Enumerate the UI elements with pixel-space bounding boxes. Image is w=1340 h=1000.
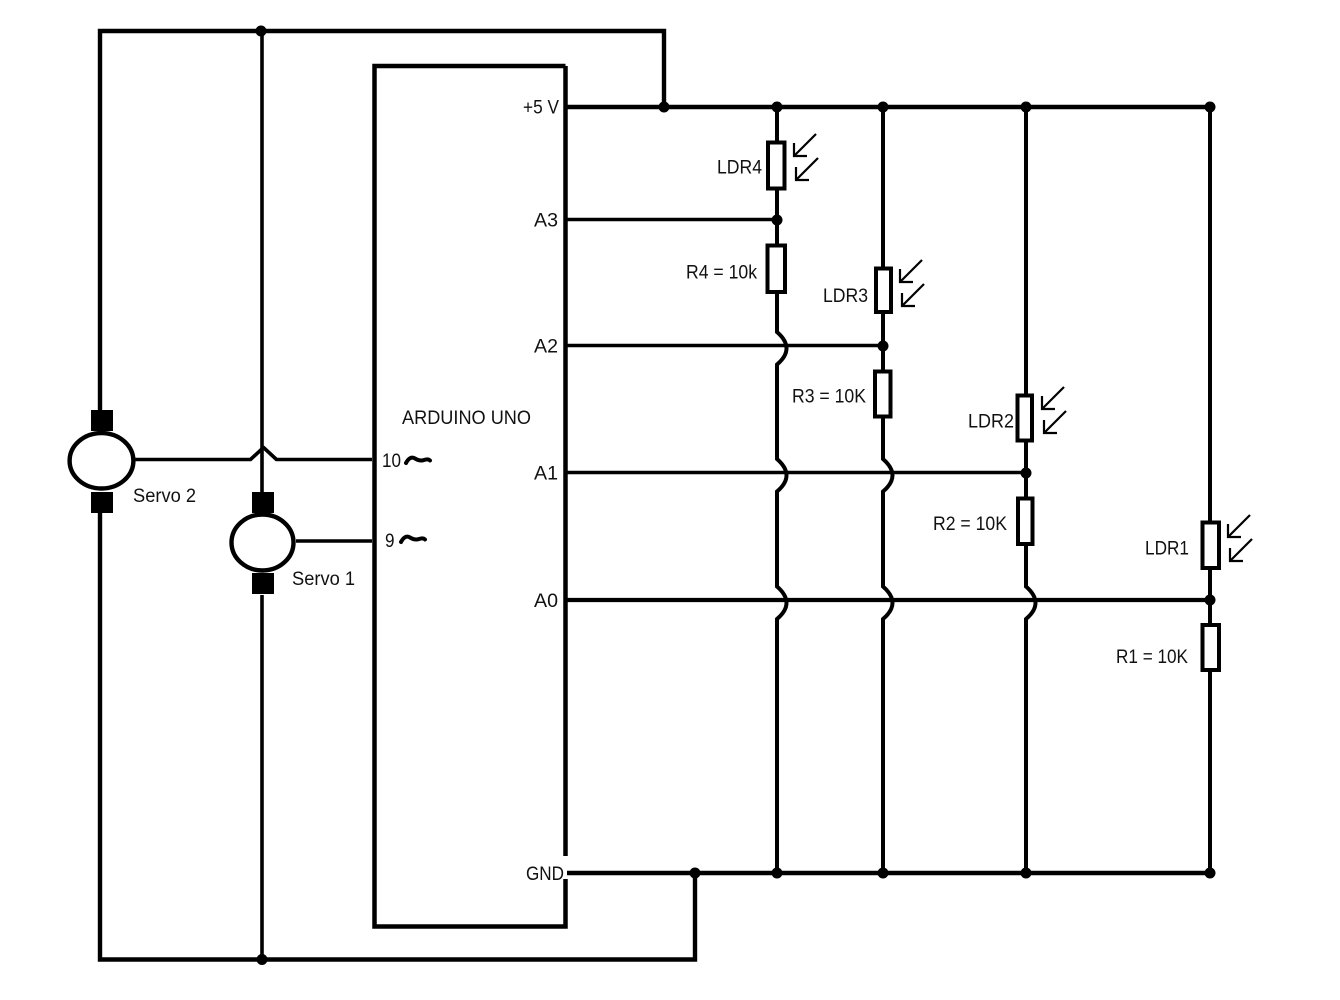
wire vertical feed to Servo 1 top — [260, 31, 264, 494]
wire A1 line — [567, 471, 1026, 475]
photoresistor LDR4 — [768, 143, 785, 189]
photoresistor LDR2 — [1018, 396, 1033, 441]
wire divider column 1 (x=1210) — [1208, 107, 1212, 873]
svg-text:Servo 1: Servo 1 — [292, 569, 355, 590]
resistor R1 — [1203, 625, 1220, 670]
photoresistor LDR3 — [876, 269, 891, 313]
node GND / divider 1 — [1205, 868, 1216, 879]
node GND / divider 4 — [772, 868, 783, 879]
LDR1 light arrow 2 — [1230, 539, 1252, 561]
svg-text:LDR4: LDR4 — [717, 158, 762, 179]
svg-text:R3 = 10K: R3 = 10K — [792, 387, 866, 408]
pin 10 PWM tilde — [406, 458, 430, 463]
svg-text:LDR2: LDR2 — [968, 412, 1014, 433]
wire Servo 1 bottom to ground run — [260, 595, 264, 960]
photoresistor LDR1 — [1203, 523, 1220, 569]
wire A2 line — [567, 344, 883, 348]
svg-text:A1: A1 — [534, 464, 558, 485]
svg-text:R4 = 10k: R4 = 10k — [686, 263, 757, 284]
node GND / servo return — [690, 868, 701, 879]
servo M2: Servo 1 motor symbol — [232, 492, 294, 594]
svg-text:LDR1: LDR1 — [1145, 539, 1189, 560]
LDR2 light arrow 1 — [1042, 387, 1064, 409]
svg-text:GND: GND — [526, 864, 564, 885]
svg-text:9: 9 — [385, 531, 395, 552]
wire +5V rail — [567, 105, 1210, 109]
wire divider column 2 (x=1026, hop over A0) — [1026, 107, 1036, 873]
svg-text:A2: A2 — [534, 337, 558, 358]
svg-text:A3: A3 — [534, 211, 558, 232]
wire A3 line — [567, 218, 777, 222]
wire Servo 1 signal to pin 9 — [296, 539, 372, 543]
svg-text:Servo 2: Servo 2 — [133, 486, 196, 507]
svg-text:ARDUINO UNO: ARDUINO UNO — [402, 407, 531, 429]
node junction on top wire (servo1 feed) — [256, 26, 267, 37]
ic U1 ARDUINO UNO box — [375, 66, 566, 927]
node A3 / divider 4 — [772, 215, 783, 226]
LDR4 light arrow 1 — [794, 134, 816, 156]
node GND / divider 2 — [1021, 868, 1032, 879]
wire Servo 2 bottom to ground run and bottom ground run — [100, 512, 695, 960]
resistor R4 — [768, 246, 786, 293]
wire top +5V distribution (left vertical, top run, right drop) — [100, 31, 664, 411]
pin 9 PWM tilde — [401, 537, 425, 542]
svg-text:R2 = 10K: R2 = 10K — [933, 514, 1007, 535]
node +5V / LDR1 — [1205, 102, 1216, 113]
wire divider column 4 (x=777, hops over A2, A1, A0) — [777, 107, 787, 873]
wire A0 line — [567, 598, 1210, 602]
node +5V / LDR2 — [1021, 102, 1032, 113]
svg-text:A0: A0 — [534, 591, 558, 612]
node A1 / divider 2 — [1021, 468, 1032, 479]
wire Servo 2 signal to pin 10 (with hop over vertical wire) — [134, 448, 372, 460]
svg-text:+5 V: +5 V — [523, 98, 559, 119]
node +5V / LDR4 — [772, 102, 783, 113]
node GND / divider 3 — [878, 868, 889, 879]
node A2 / divider 3 — [878, 341, 889, 352]
LDR3 light arrow 2 — [902, 284, 924, 306]
LDR1 light arrow 1 — [1228, 515, 1250, 537]
node +5V rail corner junction — [659, 102, 670, 113]
LDR3 light arrow 1 — [900, 260, 922, 282]
LDR4 light arrow 2 — [796, 158, 818, 180]
servo M1: Servo 2 motor symbol — [70, 410, 134, 513]
svg-text:R1 = 10K: R1 = 10K — [1116, 647, 1188, 668]
node +5V / LDR3 — [878, 102, 889, 113]
wire GND rail — [567, 871, 1210, 875]
node A0 / divider 1 — [1205, 595, 1216, 606]
resistor R2 — [1018, 499, 1033, 545]
svg-text:LDR3: LDR3 — [823, 286, 868, 307]
wire divider column 3 (x=883, hops over A1, A0) — [883, 107, 893, 873]
node junction bottom wire / servo1 ground — [257, 954, 268, 965]
resistor R3 — [875, 372, 891, 417]
svg-text:10: 10 — [382, 451, 401, 472]
LDR2 light arrow 2 — [1044, 411, 1066, 433]
